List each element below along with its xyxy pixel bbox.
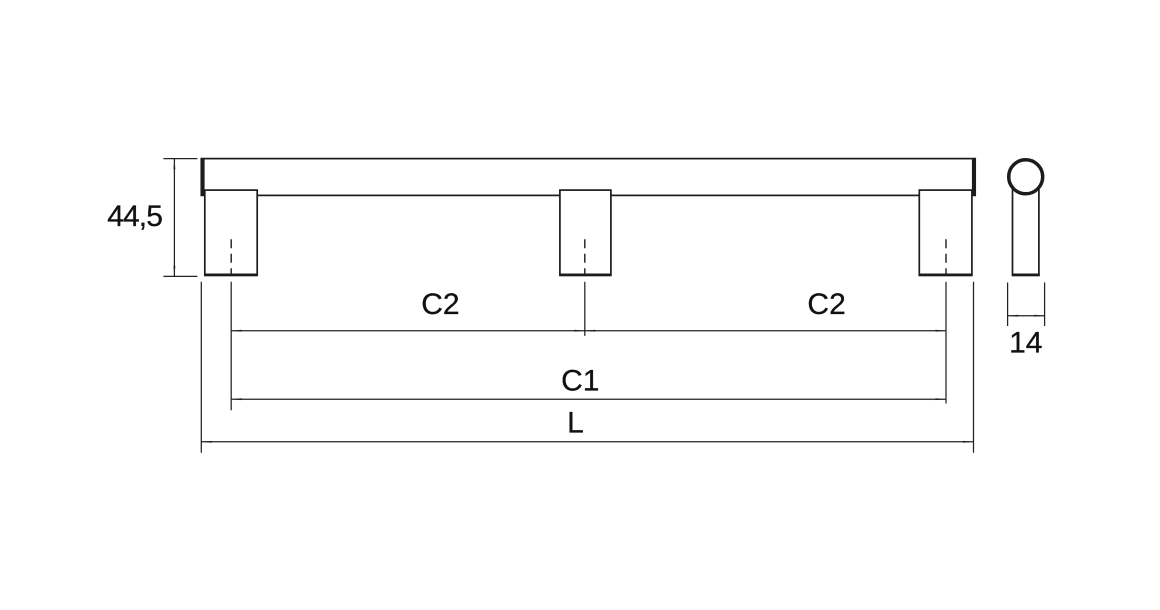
extension line right post center	[945, 282, 947, 404]
handle bar (front view)	[201, 159, 975, 196]
extension line bar right end	[973, 282, 975, 453]
extension line left post center	[230, 282, 232, 411]
left post	[205, 190, 257, 275]
dim C2 arrow left	[231, 330, 242, 332]
dim L dimension line	[201, 441, 973, 443]
dim 44,5 bottom extension line	[163, 275, 197, 277]
svg-text:C2: C2	[421, 288, 459, 321]
dim 14 arrow left	[1008, 315, 1019, 317]
dim C2 middle arrows	[574, 330, 585, 332]
dim C2 arrow right	[936, 330, 947, 332]
side view post	[1013, 177, 1039, 275]
svg-text:L: L	[567, 407, 584, 440]
middle post centerline	[584, 239, 586, 276]
dim L arrow right	[963, 441, 974, 443]
bar left end cap	[201, 159, 204, 195]
svg-text:44,5: 44,5	[107, 200, 162, 233]
left post centerline	[230, 239, 232, 276]
dim 14 left extension line	[1007, 283, 1009, 327]
dim C1 arrow left	[231, 398, 242, 400]
dim 44,5 arrow up	[173, 159, 175, 170]
dim 44,5 arrow down	[173, 266, 175, 277]
extension line bar left end	[200, 282, 202, 453]
right post centerline	[945, 239, 947, 276]
dim C2 dimension line	[231, 330, 946, 332]
dim 44,5 top extension line	[163, 158, 197, 160]
extension line middle post center	[584, 282, 586, 336]
dim 14 right extension line	[1044, 283, 1046, 327]
left post foot line	[204, 274, 257, 277]
dim 44,5 dimension line	[173, 159, 175, 277]
side view bar cross-section circle	[1009, 160, 1043, 194]
right post foot line	[919, 274, 973, 277]
side view post foot line	[1012, 274, 1040, 277]
middle post	[560, 190, 611, 275]
svg-text:14: 14	[1009, 326, 1042, 359]
dim 14 dimension line	[1008, 315, 1045, 317]
dim L arrow left	[201, 441, 212, 443]
svg-text:C1: C1	[561, 364, 599, 397]
dim C1 dimension line	[231, 398, 946, 400]
dim C1 arrow right	[936, 398, 947, 400]
middle post foot line	[559, 274, 611, 277]
right post	[919, 190, 972, 275]
bar right end cap	[972, 159, 975, 195]
dim 14 arrow right	[1034, 315, 1045, 317]
svg-text:C2: C2	[807, 288, 845, 321]
